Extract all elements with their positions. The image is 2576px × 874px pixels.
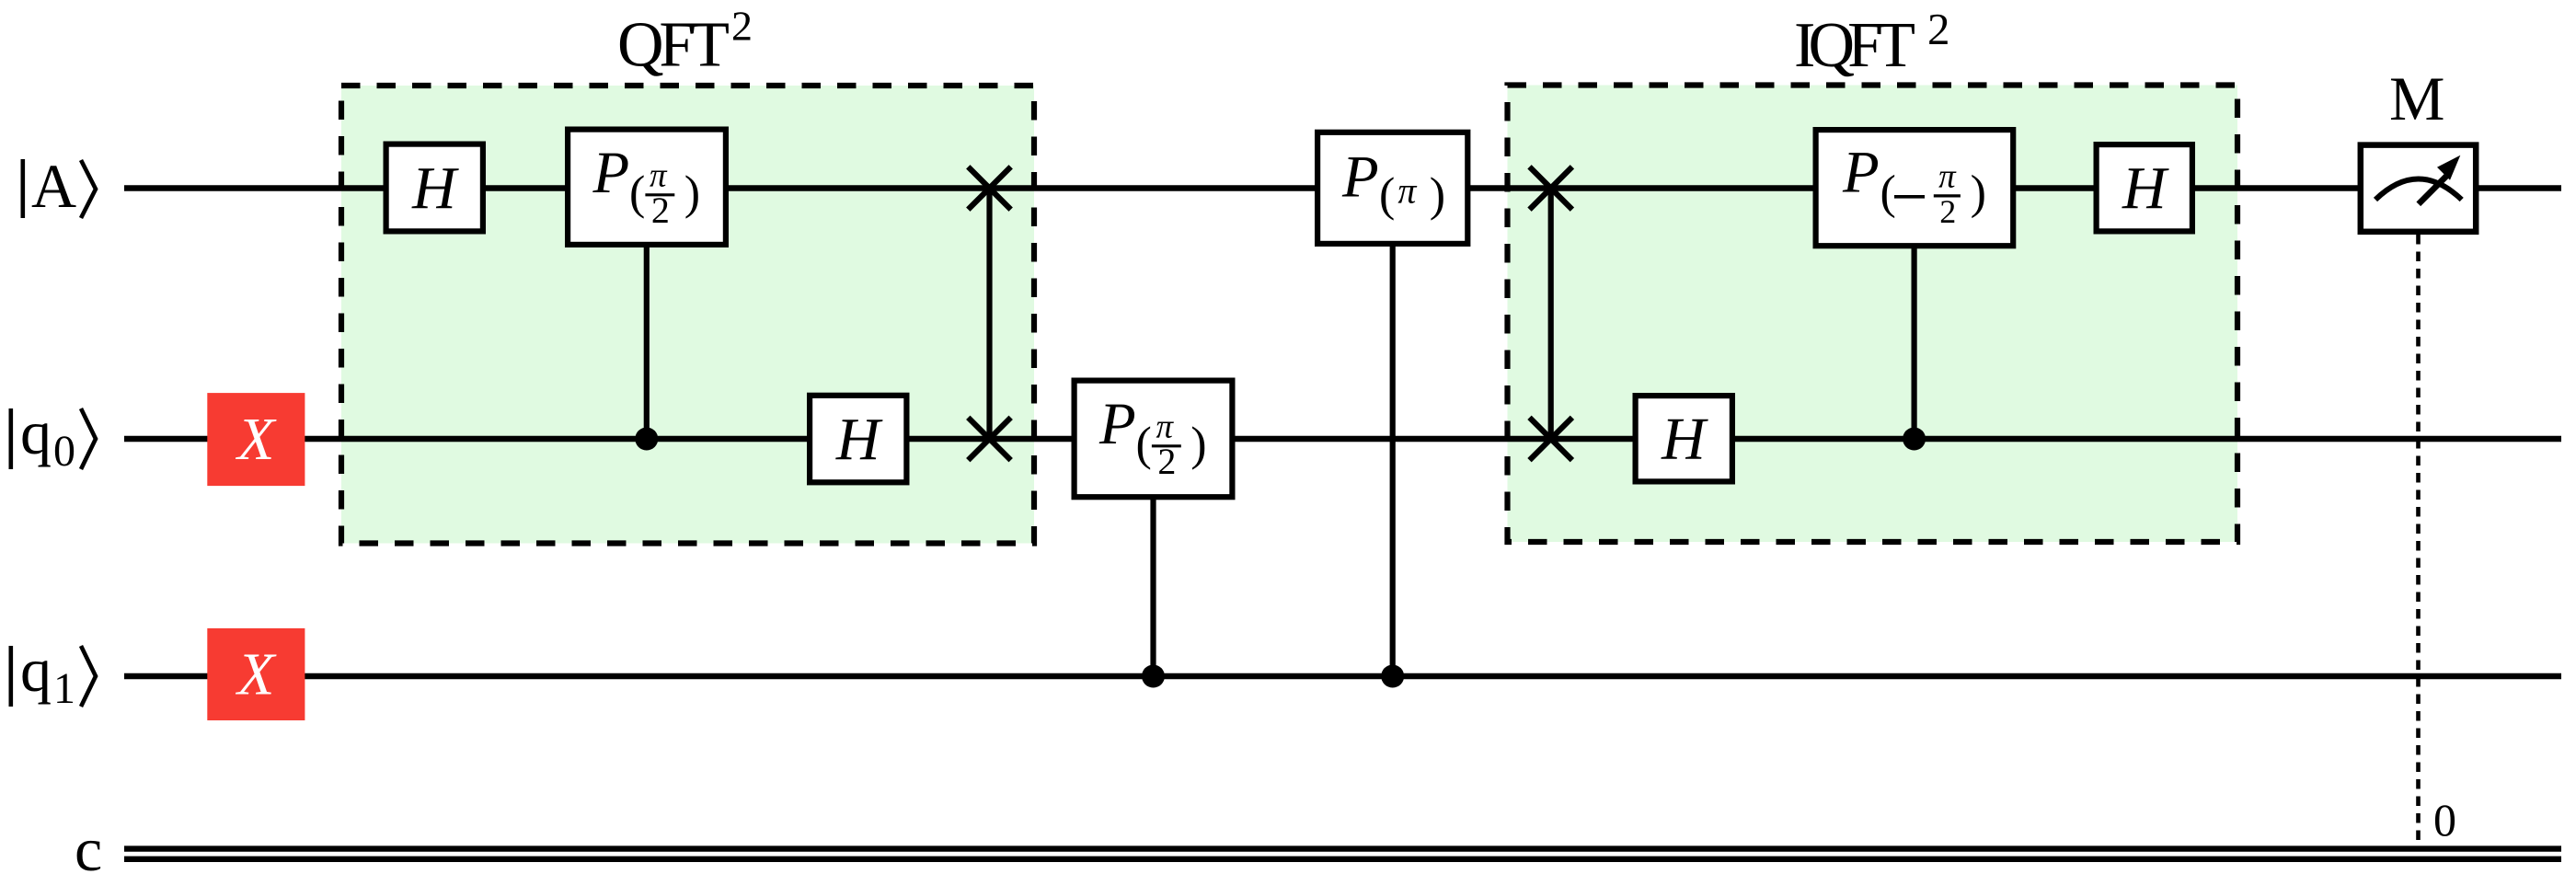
svg-text:q: q	[20, 397, 52, 467]
control line P1	[644, 246, 650, 439]
svg-text:2: 2	[1927, 4, 1950, 54]
QFT block background	[341, 86, 1034, 544]
wire |A> (qubit A)	[124, 185, 2561, 190]
svg-text:0: 0	[53, 427, 75, 476]
gate H4 on A (IQFT)	[2097, 144, 2192, 231]
node label |q0>	[9, 397, 97, 476]
swap S1 cross on q0	[968, 418, 1010, 460]
swap S1 cross on A	[968, 167, 1010, 209]
svg-text:(: (	[1379, 169, 1395, 222]
svg-text:X: X	[235, 406, 277, 473]
gate H1 on A (QFT)	[386, 144, 483, 232]
svg-text:H: H	[835, 406, 883, 473]
svg-text:0: 0	[2433, 794, 2456, 845]
svg-text:M: M	[2389, 63, 2444, 133]
svg-text:X: X	[235, 641, 277, 708]
svg-text:H: H	[1661, 406, 1708, 473]
label IQFT^2	[1794, 4, 1950, 81]
meter U1 (measurement gate)	[2361, 145, 2476, 232]
label QFT^2	[617, 3, 753, 81]
svg-text:QFT: QFT	[617, 10, 730, 81]
svg-text:A: A	[31, 151, 76, 221]
node label |A>	[21, 151, 97, 221]
svg-text:(: (	[1136, 419, 1152, 471]
svg-text:): )	[1971, 167, 1986, 219]
svg-text:(: (	[629, 167, 645, 220]
control dot P2 on q1	[1142, 665, 1165, 688]
svg-text:): )	[1430, 169, 1445, 222]
gate P2 P(pi/2) on q0	[1075, 381, 1233, 498]
control line P2	[1150, 497, 1156, 676]
gate X on q0	[207, 393, 305, 486]
svg-text:(: (	[1880, 167, 1896, 219]
control dot P3 on q1	[1381, 665, 1404, 688]
node label |q1>	[9, 635, 97, 713]
svg-text:2: 2	[651, 190, 670, 231]
svg-text:P: P	[1098, 391, 1136, 457]
IQFT block background	[1508, 86, 2238, 543]
svg-text:2: 2	[1157, 441, 1176, 482]
svg-text:P: P	[1842, 140, 1880, 206]
svg-text:1: 1	[53, 664, 75, 713]
gate H2 on q0 (QFT)	[810, 396, 906, 483]
wire |q1> (qubit q1)	[124, 673, 2561, 679]
svg-text:q: q	[20, 635, 52, 705]
svg-text:): )	[1190, 419, 1206, 471]
gate P4 P(-pi/2) on A (IQFT)	[1816, 130, 2014, 246]
svg-text:H: H	[2122, 155, 2169, 222]
control line P3	[1390, 245, 1396, 676]
svg-text:P: P	[592, 140, 630, 206]
swap S2 cross on A	[1530, 167, 1572, 209]
svg-text:): )	[684, 167, 700, 220]
gate H3 on q0 (IQFT)	[1636, 396, 1732, 481]
control dot P4 on q0	[1903, 428, 1926, 451]
gate P1 P(pi/2) on A (QFT)	[568, 130, 726, 245]
swap S1 vertical line	[986, 189, 992, 440]
gate X on q1	[207, 628, 305, 720]
control dot P1 on q0	[635, 428, 658, 451]
swap S2 vertical line	[1548, 189, 1554, 440]
svg-text:π: π	[1938, 158, 1957, 196]
measurement dashed line to c	[2416, 235, 2421, 845]
svg-text:2: 2	[1939, 193, 1956, 230]
svg-text:π: π	[1397, 170, 1417, 212]
svg-text:IQFT: IQFT	[1794, 10, 1915, 81]
svg-text:H: H	[411, 155, 459, 222]
wire c (classical double line)	[124, 849, 2561, 859]
svg-text:P: P	[1341, 144, 1379, 211]
gate P3 P(pi) on A	[1317, 132, 1467, 244]
svg-text:2: 2	[731, 3, 753, 50]
swap S2 cross on q0	[1530, 418, 1572, 460]
svg-text:c: c	[75, 814, 102, 874]
control line P4	[1912, 246, 1917, 439]
wire |q0> (qubit q0)	[124, 436, 2561, 442]
